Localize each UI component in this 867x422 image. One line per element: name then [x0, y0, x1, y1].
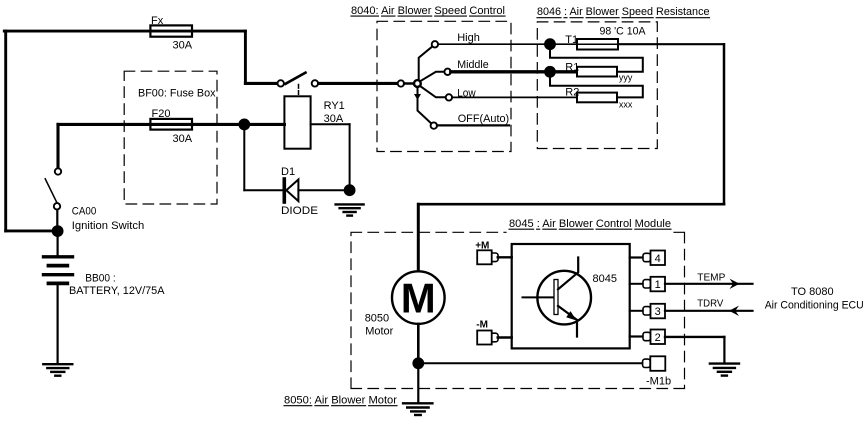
ground motor: [403, 402, 432, 404]
svg-text:8045: 8045: [593, 273, 617, 285]
wire F20 row: [58, 123, 244, 126]
wire motor bottom: [417, 324, 420, 359]
svg-text:30A: 30A: [173, 133, 193, 145]
motor 8050: [392, 271, 445, 324]
diode D1: [282, 179, 286, 202]
relay RY1 coil box: [284, 96, 310, 148]
svg-text:Fx: Fx: [151, 15, 164, 27]
resistor R1: [577, 67, 617, 77]
wire pin2 to ground: [665, 336, 724, 338]
wire to motor ground: [417, 368, 419, 402]
svg-text:R1: R1: [565, 61, 579, 73]
svg-text:2: 2: [655, 332, 661, 344]
svg-text:8046 : Air Blower Speed Resist: 8046 : Air Blower Speed Resistance: [537, 6, 710, 18]
ignition switch CA00: [55, 168, 61, 174]
wire TDRV: [665, 310, 753, 312]
node battery junction: [52, 225, 64, 237]
svg-text:TDRV: TDRV: [697, 298, 723, 310]
svg-text:Air Conditioning ECU: Air Conditioning ECU: [765, 300, 864, 312]
svg-text:BB00 :: BB00 :: [85, 273, 116, 285]
ground pin2: [710, 362, 739, 364]
8040 dashed box: [377, 21, 511, 151]
svg-text:TO 8080: TO 8080: [791, 286, 834, 298]
svg-text:8040: Air Blower Speed Control: 8040: Air Blower Speed Control: [351, 5, 505, 17]
node relay coil feed junction: [238, 119, 250, 131]
node R1 input: [544, 66, 556, 78]
blade to OFF: [418, 88, 432, 123]
contact Low: [446, 94, 452, 100]
svg-text:3: 3: [655, 306, 661, 318]
wire loop R2 out to R1 in: [550, 76, 643, 97]
wire coil right to ground leg: [311, 123, 350, 125]
wire OFF stub: [437, 124, 509, 126]
thermal fuse T1: [577, 39, 618, 50]
wire right trunk vertical: [723, 44, 726, 204]
svg-text:D1: D1: [281, 166, 295, 178]
speed control switch input terminal: [398, 80, 404, 86]
svg-text:CA00: CA00: [72, 206, 97, 218]
wire top horizontal from left edge through Fx: [4, 30, 245, 33]
wire junction to coil: [244, 123, 284, 126]
connector pin 4: [630, 256, 642, 258]
svg-text:4: 4: [655, 253, 661, 265]
resistor R2: [577, 93, 617, 103]
ground battery: [43, 363, 72, 365]
svg-text:1: 1: [655, 279, 661, 291]
svg-text:-M1b: -M1b: [646, 375, 671, 387]
wire junction down to diode: [243, 129, 245, 190]
switch pivot: [414, 80, 421, 87]
svg-text:DIODE: DIODE: [281, 205, 318, 217]
svg-text:OFF(Auto): OFF(Auto): [458, 113, 510, 125]
pivot arrow: [414, 94, 421, 100]
wire left vertical edge: [4, 31, 7, 231]
contact High: [432, 41, 438, 47]
wire Low row: [452, 96, 577, 98]
svg-text:M: M: [401, 275, 436, 322]
blade to Middle: [420, 72, 444, 82]
wire TEMP: [665, 283, 753, 285]
svg-text:BF00: Fuse Box: BF00: Fuse Box: [138, 88, 216, 100]
svg-text:High: High: [457, 32, 480, 44]
svg-text:BATTERY, 12V/75A: BATTERY, 12V/75A: [69, 285, 165, 297]
svg-text:R2: R2: [565, 86, 579, 98]
node motor bottom junction: [412, 357, 424, 369]
svg-text:Middle: Middle: [457, 59, 489, 71]
wire to relay contact: [245, 82, 276, 85]
wire left bottom horizontal to battery junction: [6, 229, 53, 232]
wire trunk horizontal to motor: [418, 203, 724, 206]
relay RY1 contacts: [278, 80, 284, 86]
svg-text:yyy: yyy: [619, 73, 633, 83]
svg-text:30A: 30A: [173, 40, 193, 52]
svg-text:xxx: xxx: [619, 99, 633, 109]
blade to High: [419, 47, 432, 79]
transistor Q 8045: [537, 271, 591, 325]
svg-text:Ignition Switch: Ignition Switch: [72, 220, 145, 232]
wire vertical x=245 from Fx wire down to relay contact row: [244, 31, 247, 83]
connector pin 1: [630, 283, 642, 285]
svg-text:98 'C 10A: 98 'C 10A: [600, 25, 647, 37]
blade to Low: [420, 86, 446, 97]
wire loop R1 out to T1 in: [550, 48, 643, 72]
wire down to ignition switch: [56, 124, 59, 167]
contact OFF: [431, 122, 437, 128]
wire High row: [438, 43, 577, 45]
svg-text:RY1: RY1: [324, 100, 345, 112]
wire Middle row (thick): [451, 70, 577, 73]
svg-text:F20: F20: [152, 108, 171, 120]
wire T1 out to right trunk: [618, 43, 724, 45]
svg-text:-M: -M: [476, 319, 488, 330]
connector pin 3: [630, 310, 642, 312]
BF00 fuse box dashed: [124, 71, 217, 204]
battery BB00: [56, 237, 58, 256]
svg-text:T1: T1: [565, 34, 578, 46]
connector pin 2: [630, 335, 642, 337]
8045 dashed box: [351, 232, 685, 388]
fuse F20: [150, 119, 192, 130]
8046 dashed box: [537, 22, 657, 149]
wire to -M1b: [418, 362, 641, 364]
connector -M1b box: [650, 356, 665, 371]
node T1 input: [544, 38, 556, 50]
wire down to motor: [417, 204, 420, 272]
svg-text:8045 : Air Blower Control Modu: 8045 : Air Blower Control Module: [509, 218, 671, 230]
wire relay contact to speed control: [319, 82, 398, 85]
module solid box: [512, 244, 630, 348]
dashed mechanical link: [298, 85, 300, 97]
svg-text:TEMP: TEMP: [697, 271, 725, 283]
fuse Fx: [150, 25, 192, 36]
svg-text:8050: 8050: [365, 312, 389, 324]
connector -M1b: [643, 359, 651, 367]
svg-text:8050: Air Blower Motor: 8050: Air Blower Motor: [284, 395, 397, 407]
svg-text:Motor: Motor: [365, 325, 393, 337]
node diode-coil-ground junction: [344, 184, 356, 196]
ground diode: [336, 203, 364, 205]
contact Middle: [444, 69, 450, 75]
